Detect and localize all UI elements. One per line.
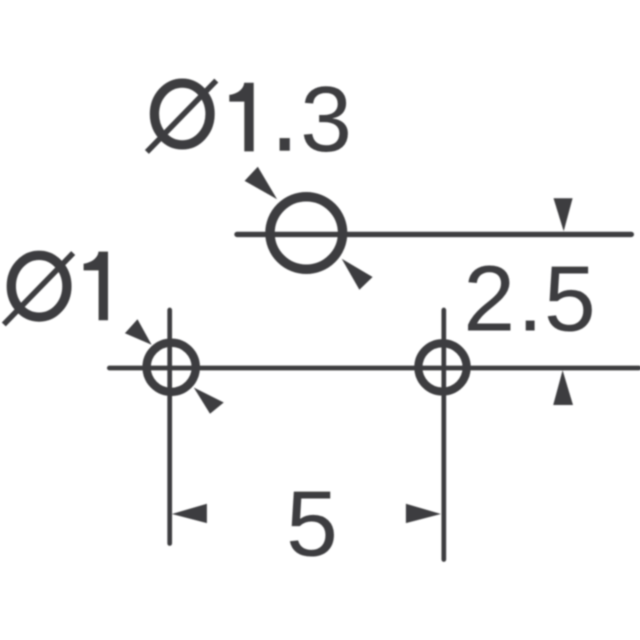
label Ø1 : diameter symbol slash — [4, 253, 73, 324]
label Ø1 : digit 1 — [84, 252, 108, 321]
label Ø1.3 : decimal point — [280, 138, 290, 151]
dimension arrow right (5) — [406, 504, 441, 523]
leader arrow upper-left at H1 — [245, 167, 278, 200]
centerline through H2 and H3 (2.5 dim lower line) — [109, 366, 639, 371]
leader arrow lower-right at H1 — [342, 259, 373, 290]
leader arrow upper-left at H2 — [125, 319, 152, 345]
svg-text:3: 3 — [300, 67, 352, 171]
hole H3 (Ø1, right) — [418, 343, 466, 391]
dimension arrow up (2.5, bottom) — [553, 370, 573, 405]
dimension arrow down (2.5, top) — [554, 198, 573, 231]
label Ø1 : diameter symbol bowl — [11, 255, 67, 317]
label Ø1.3 : diameter symbol bowl — [154, 83, 210, 145]
svg-text:2: 2 — [463, 246, 515, 350]
hole H2 (Ø1, left) — [147, 343, 196, 392]
vertical centerline through H3 (5 dim right extension) — [441, 310, 446, 560]
svg-text:5: 5 — [286, 471, 338, 575]
label Ø1.3 : digit 1 — [229, 83, 253, 152]
svg-text:.: . — [517, 246, 543, 350]
dimension arrow left (5) — [172, 504, 207, 523]
label Ø1.3 : diameter symbol slash — [147, 81, 216, 152]
svg-text:5: 5 — [544, 246, 596, 350]
leader arrow lower-right at H2 — [194, 388, 224, 414]
hole H1 (Ø1.3) — [270, 197, 343, 270]
centerline through H1 (2.5 dim upper line) — [237, 232, 631, 237]
vertical centerline through H2 (5 dim left extension) — [167, 310, 172, 544]
